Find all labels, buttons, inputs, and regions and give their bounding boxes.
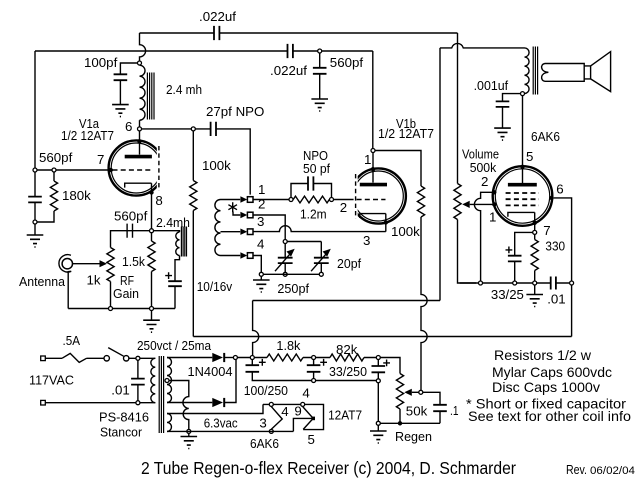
junction dot V2 g1 entry	[492, 202, 496, 206]
svg-text:560pf: 560pf	[39, 150, 73, 165]
junction dot V2 cathode exit	[533, 221, 537, 225]
svg-text:2 Tube Regen-o-flex Receiver: 2 Tube Regen-o-flex Receiver (c) 2004, D…	[141, 458, 516, 478]
wire antenna to R3 wiper	[73, 263, 100, 265]
junction dot V2 plate entry	[520, 165, 524, 169]
tube V1b cathode	[360, 214, 386, 218]
junction dot V1a grid entry	[109, 168, 113, 172]
wire B+ audio takeoff top rail y=33	[140, 32, 458, 34]
svg-text:7: 7	[97, 152, 104, 167]
wire 6.3 bottom rail	[167, 430, 293, 432]
arrowhead regen wiper	[404, 389, 412, 396]
wire sq2 down to tuning caps	[253, 215, 285, 239]
svg-text:33/250: 33/250	[329, 364, 367, 379]
wire V1a plate down-lead with hop over y=51 wire	[140, 33, 146, 61]
plus sign C17	[320, 359, 327, 366]
svg-text:1k: 1k	[87, 273, 101, 288]
wire sq1 to grid combo	[253, 199, 289, 201]
wire AC hot to fuse	[45, 357, 62, 359]
svg-text:1/2 12AT7: 1/2 12AT7	[61, 128, 114, 143]
svg-text:.022uf: .022uf	[199, 9, 236, 24]
plus sign C16	[259, 359, 266, 366]
transformer T2 core	[533, 47, 537, 95]
arrowhead R3 wiper	[100, 260, 108, 267]
wire ground stub RF rail	[151, 311, 153, 320]
wire 6AK6 g3 to bypass rail with hop	[474, 192, 493, 280]
terminal square 2	[247, 212, 253, 218]
wire regen wiper	[412, 391, 419, 393]
capacitor C11 250pf variable	[278, 258, 293, 263]
resistor R9 1.8k	[267, 354, 303, 361]
wire C15 stubs	[137, 361, 139, 401]
svg-text:5: 5	[308, 432, 315, 447]
svg-text:117VAC: 117VAC	[29, 373, 74, 388]
node V1b plate	[371, 149, 375, 153]
wire D2 riser	[224, 360, 236, 403]
resistor R6 100k V1b plate load	[417, 186, 424, 217]
wire wiper to C19	[423, 392, 440, 423]
node filter C16 top	[250, 356, 254, 360]
svg-text:500k: 500k	[470, 160, 497, 175]
svg-text:100pf: 100pf	[84, 55, 118, 70]
wire 100pf stub	[120, 63, 137, 104]
svg-text:3: 3	[259, 416, 266, 431]
svg-text:1.2m: 1.2m	[300, 207, 327, 222]
wire V1b plate node to 100k	[375, 151, 421, 187]
tube V1b cathode lead pin3	[385, 214, 387, 232]
svg-text:7: 7	[543, 223, 550, 238]
wire V1b plate feed down	[372, 51, 374, 151]
fuse F1 .5A	[62, 353, 87, 362]
inductor L3 tank coil	[215, 200, 221, 256]
wire volume-pot feed x=457.5	[457, 33, 459, 184]
resistor R5 1.2m	[293, 196, 329, 203]
wire C11 bottom	[284, 263, 286, 272]
wire tap2 from star	[233, 212, 240, 216]
node 100k grid leak top	[191, 127, 195, 131]
arrow C11 variable	[275, 253, 291, 272]
arrowhead tap3	[240, 229, 247, 235]
resistor R7 500k volume pot	[454, 184, 461, 220]
arrowhead tap4	[240, 252, 247, 258]
svg-text:.5A: .5A	[63, 333, 81, 348]
svg-text:3: 3	[363, 233, 370, 248]
wire cathode bypass rail y=283	[460, 282, 570, 284]
wire C18 leads	[377, 360, 379, 379]
wire AC neutral to T1	[45, 402, 155, 404]
svg-text:1: 1	[364, 152, 371, 167]
terminal square 3	[247, 229, 253, 235]
plus sign C13	[506, 247, 513, 254]
junction dot 50k bottom	[398, 421, 402, 425]
node C15 bottom	[136, 401, 140, 405]
inductor L2 2.4mh cathode choke	[176, 232, 180, 255]
wire cathode cap branch	[111, 224, 150, 248]
svg-text:10/16v: 10/16v	[197, 279, 233, 294]
svg-text:PS-8416: PS-8416	[99, 410, 149, 425]
svg-text:12AT7: 12AT7	[328, 408, 362, 423]
capacitor C12 20pf variable	[314, 258, 329, 263]
capacitor C5 .001uf	[496, 101, 510, 107]
svg-text:6: 6	[556, 182, 563, 197]
wire regen bottom rail	[381, 422, 441, 424]
capacitor C13 33uf/25v	[508, 256, 522, 262]
capacitor C16 100/250 first filter	[246, 365, 260, 372]
tube V2 plate bar	[508, 183, 537, 187]
wire rail end to regen ground	[377, 383, 379, 421]
star mark fixed tap	[228, 202, 237, 212]
svg-text:2: 2	[258, 197, 265, 212]
svg-text:9: 9	[294, 404, 301, 419]
tube V1a plate bar	[125, 155, 152, 159]
svg-text:6.3vac: 6.3vac	[204, 416, 238, 431]
capacitor C1 .022uf (plate to volume)	[214, 26, 219, 40]
tube V1b dashed side	[355, 174, 357, 219]
svg-text:100k: 100k	[202, 158, 231, 173]
junction dot V2 screen exit	[549, 196, 553, 200]
wire HV top to D1	[167, 357, 212, 359]
terminal square 4	[247, 253, 253, 259]
wire heater rail y=404.4	[263, 404, 324, 429]
node V1a plate choke top	[138, 61, 142, 65]
tube V1b envelope outer	[351, 168, 406, 223]
capacitor C3 100pf	[114, 74, 128, 80]
svg-text:100/250: 100/250	[244, 383, 288, 398]
node grid rail top	[33, 168, 37, 172]
tube V1b plate lead	[372, 153, 374, 183]
tube V1a cathode	[125, 183, 152, 187]
resistor R11 50k regen pot	[396, 374, 403, 424]
svg-text:1.5k: 1.5k	[122, 254, 145, 269]
wire tap3	[221, 231, 241, 233]
svg-text:.022uf: .022uf	[270, 63, 307, 78]
tube V2 grid1 dashes	[506, 192, 539, 194]
plus sign C18	[383, 360, 390, 367]
ground for 6AK6 cathode	[526, 295, 543, 307]
wire reflex feedback rail y=51	[35, 50, 373, 52]
svg-text:100k: 100k	[391, 224, 420, 239]
wire ground stub PS	[188, 434, 190, 437]
svg-text:See text for other coil info: See text for other coil info	[468, 408, 631, 424]
svg-text:2: 2	[340, 200, 347, 215]
wire B+ y=300.5 rail	[253, 300, 440, 302]
svg-text:50k: 50k	[406, 404, 428, 419]
svg-text:Antenna: Antenna	[19, 274, 66, 289]
transformer T1 HV secondary	[167, 358, 172, 403]
node bypass rail left	[479, 281, 483, 285]
wire D1 to B+ node	[224, 357, 233, 359]
wire B+ riser x=440	[439, 48, 441, 301]
ground for C5	[494, 128, 511, 140]
svg-text:5: 5	[526, 149, 533, 164]
svg-text:06/02/04: 06/02/04	[590, 465, 635, 477]
resistor R3 1k antenna pot	[107, 248, 114, 309]
svg-text:1N4004: 1N4004	[188, 364, 233, 379]
svg-text:3: 3	[257, 214, 264, 229]
capacitor C6 560pf grid	[28, 197, 42, 203]
switch S1 contact 2	[124, 356, 129, 361]
junction square 12AT7 pin9	[311, 417, 315, 421]
wire fuse to switch	[87, 357, 105, 359]
junction dot V1a cathode exit	[149, 190, 153, 194]
wire C17 leads	[313, 360, 315, 379]
inductor L1 2.4mh plate choke	[140, 65, 146, 120]
wire V1b cathode to tap3 with hop	[253, 226, 386, 232]
node 560pf tap on reflex rail	[318, 49, 322, 53]
tube V1a dashed side	[158, 146, 160, 191]
node heater pin4 12AT7	[301, 402, 305, 406]
transformer T1 primary	[151, 358, 155, 402]
node grid rail bottom	[33, 220, 37, 224]
svg-text:20pf: 20pf	[337, 256, 361, 271]
terminal square AC hot	[41, 356, 46, 361]
node heater return junction	[187, 429, 191, 433]
wire y=48 B+ to output transformer with hop	[440, 43, 525, 47]
tube V1b grid (dashed)	[357, 199, 386, 201]
tube V1a envelope inner	[111, 143, 161, 193]
tube V1a flat erase	[157, 144, 167, 192]
svg-text:8: 8	[155, 193, 162, 208]
arrowhead volume wiper	[462, 201, 470, 208]
wire V1a grid rail corner down	[34, 51, 36, 170]
wire L1 bottom to pin6 node	[139, 120, 141, 127]
wire tap1	[221, 199, 241, 201]
wire center tap to ground with hops	[169, 381, 189, 430]
capacitor C4 560pf (V1b plate bypass)	[313, 68, 327, 74]
svg-text:250pf: 250pf	[277, 281, 309, 296]
node decoupling rail end	[376, 379, 380, 383]
svg-text:6AK6: 6AK6	[531, 129, 560, 144]
heater V2 6AK6 chevron	[271, 407, 282, 430]
tube V2 grid3 dashes	[506, 204, 539, 206]
resistor R2 1.5k RF gain	[148, 233, 155, 306]
wire R4 bottom to bus	[192, 211, 194, 337]
tube V1b plate bar	[360, 183, 387, 187]
svg-text:330: 330	[545, 238, 565, 253]
node combo left	[289, 198, 293, 202]
wire switch to T1	[129, 357, 155, 359]
svg-text:180k: 180k	[62, 188, 91, 203]
arrowhead tap2	[240, 212, 247, 218]
node heater pin4 6AK6	[269, 402, 273, 406]
ground for power supply	[181, 437, 198, 449]
core of L2	[181, 227, 186, 257]
node V2 cathode terminal	[533, 230, 537, 234]
capacitor C10 50pf NPO	[308, 176, 313, 190]
wire RF-gain ground rail	[68, 308, 175, 310]
tube V2 envelope inner	[495, 169, 549, 223]
switch S1 arm	[108, 348, 123, 357]
wire cathode choke branch	[154, 231, 180, 232]
wire combo to V1b grid	[334, 199, 354, 201]
junction dot V1a plate entry	[137, 139, 141, 143]
wire ground stub cathode rail	[534, 285, 536, 294]
arrowhead tap1	[240, 196, 247, 202]
svg-text:1: 1	[489, 210, 496, 225]
svg-text:4: 4	[302, 386, 309, 401]
node filter C17 top	[312, 356, 316, 360]
svg-text:560pf: 560pf	[330, 55, 364, 70]
speaker LS1 body	[545, 64, 591, 82]
svg-text:50 pf: 50 pf	[303, 161, 330, 176]
transformer T2 secondary winding	[542, 64, 549, 82]
tube V2 grid2 dashes	[506, 198, 539, 200]
resistor R4 100k grid leak	[190, 131, 197, 210]
svg-text:Rev.: Rev.	[566, 463, 587, 477]
tube V1a grid (dashed)	[113, 169, 154, 171]
node 180k top	[52, 168, 56, 172]
resistor R8 330	[531, 235, 538, 281]
transformer T1 core	[159, 356, 163, 433]
wire combo right riser	[313, 184, 331, 198]
heater V1 12AT7 chevron	[303, 407, 314, 430]
tube V1a plate lead	[139, 131, 141, 155]
svg-text:Disc Caps 1000v: Disc Caps 1000v	[492, 379, 600, 395]
wire 560pf stub to ground	[319, 53, 321, 99]
wire pin9 to 6.3 return	[293, 418, 313, 431]
diode D1 1N4004	[212, 353, 223, 362]
node regen wiper joint	[419, 390, 423, 394]
tube V2 cathode lead pin7	[534, 212, 536, 230]
svg-text:2: 2	[481, 174, 488, 189]
svg-text:1: 1	[258, 182, 265, 197]
wire combo left riser	[291, 184, 308, 198]
capacitor C9 27pf NPO	[211, 122, 216, 136]
node screen rail joint	[570, 281, 574, 285]
svg-text:27pf NPO: 27pf NPO	[206, 104, 264, 119]
node V1a pin6 junction	[138, 127, 142, 131]
node C11 bottom	[283, 272, 287, 276]
wire varcap top rail	[285, 242, 321, 258]
wire V2 screen to bus	[554, 198, 572, 337]
junction dot V1b cathode exit	[384, 220, 388, 224]
wire filter mid rail	[316, 380, 376, 382]
wire volume wiper to 6AK6 g1	[470, 203, 494, 205]
svg-text:Resistors 1/2 w: Resistors 1/2 w	[494, 347, 592, 363]
node C15 top	[136, 356, 140, 360]
svg-text:.01: .01	[547, 292, 566, 307]
arrow C12 variable	[311, 253, 327, 272]
wire .001uf stub	[503, 94, 521, 128]
wire cathode terminal left	[515, 232, 533, 280]
wire sq4 to tuning ground	[253, 256, 261, 273]
tube V1a envelope outer	[109, 140, 164, 195]
node T2 bottom / 6AK6 plate	[521, 92, 525, 96]
svg-text:Stancor: Stancor	[100, 425, 143, 440]
svg-text:6: 6	[125, 119, 132, 134]
svg-text:33/25: 33/25	[491, 287, 524, 302]
svg-text:.01: .01	[111, 383, 130, 398]
ground for C4	[311, 99, 328, 111]
svg-text:.001uf: .001uf	[474, 78, 509, 93]
node C12 bottom	[319, 272, 323, 276]
wire screen bus y=336.5	[193, 336, 571, 338]
transformer T1 6.3v winding	[167, 414, 171, 432]
wire grid rail ground stub	[34, 224, 36, 234]
svg-text:82k: 82k	[336, 342, 358, 357]
node heater pin3 6AK6	[269, 429, 273, 433]
svg-text:2.4mh: 2.4mh	[156, 215, 190, 230]
node T1 center tap	[165, 379, 169, 383]
wire V1a grid pin7	[35, 169, 110, 171]
wire L2 to C8	[175, 256, 180, 309]
diode D2 1N4004	[212, 398, 223, 407]
transformer T2 primary winding	[525, 48, 530, 94]
node D+ join	[233, 356, 237, 360]
svg-text:.1: .1	[450, 403, 459, 418]
svg-text:Regen: Regen	[395, 429, 432, 444]
wire T2 primary bottom to node	[523, 93, 525, 95]
junction dot V2 g3 entry	[492, 190, 496, 194]
wire tap4	[221, 255, 241, 257]
wire pin6 to 27pf row	[142, 129, 251, 195]
tube V2 cathode	[508, 212, 535, 216]
tube V1b flat erase	[348, 172, 358, 220]
antenna jack inner circle	[62, 259, 72, 269]
node V1a cathode junction	[150, 229, 154, 233]
wire volume bottom to bypass rail	[458, 220, 479, 284]
wire B+ rail	[238, 358, 400, 374]
wire ground stub regen	[377, 426, 379, 431]
wire ground stub tuning	[260, 277, 262, 280]
node combo right	[330, 198, 334, 202]
ground for 100pf	[112, 105, 129, 117]
node R8 bottom ground	[533, 281, 537, 285]
switch S1 contact 1	[104, 356, 109, 361]
resistor R1 180k	[37, 172, 57, 222]
node cathode rail ground	[150, 307, 154, 311]
terminal square 1	[247, 197, 253, 203]
wire C12 bottom	[320, 263, 322, 272]
capacitor C8 10uf/16v	[168, 281, 182, 286]
svg-text:2.4 mh: 2.4 mh	[166, 82, 202, 97]
junction dot V1b plate entry	[371, 167, 375, 171]
ground for RF gain rail	[143, 320, 160, 332]
ground for tuning caps	[253, 280, 270, 292]
tube V1a cathode lead pin8	[151, 183, 153, 230]
wire HV bottom to D2	[167, 402, 212, 404]
capacitor C18 33/250	[372, 366, 386, 372]
capacitor C19 .1	[433, 405, 447, 411]
ground for grid rail	[27, 235, 44, 247]
node filter mid rail	[312, 379, 316, 383]
node R3 bottom	[109, 307, 113, 311]
capacitor C17 100/250 second filter	[307, 365, 321, 372]
core of L1	[147, 73, 154, 120]
node tuning ground corner	[259, 272, 263, 276]
svg-text:Gain: Gain	[113, 286, 139, 301]
wire 6AK6 plate lead	[522, 96, 524, 183]
antenna jack outer arc	[59, 255, 71, 309]
terminal square AC neutral	[41, 400, 46, 405]
svg-text:1.8k: 1.8k	[276, 338, 300, 353]
plus sign C8	[165, 272, 172, 279]
svg-text:250vct / 25ma: 250vct / 25ma	[137, 338, 212, 353]
node varcap feed	[283, 240, 287, 244]
capacitor C2 .022uf (V1b plate to V1a grid)	[288, 44, 293, 58]
wire C16 leads	[252, 360, 311, 381]
node regen ground junction	[376, 421, 380, 425]
tube V1b envelope inner	[353, 171, 403, 221]
svg-text:4: 4	[281, 404, 288, 419]
svg-text:1/2 12AT7: 1/2 12AT7	[378, 126, 434, 141]
svg-text:560pf: 560pf	[114, 209, 148, 224]
node C13 bottom	[513, 281, 517, 285]
wire R6 to regen wiper with hops	[421, 217, 427, 390]
wire B+ riser x=252.6 with hop	[253, 301, 259, 356]
svg-text:Mylar Caps 600vdc: Mylar Caps 600vdc	[492, 364, 612, 380]
capacitor C15 .01 line	[131, 379, 145, 385]
svg-text:6AK6: 6AK6	[250, 436, 279, 451]
